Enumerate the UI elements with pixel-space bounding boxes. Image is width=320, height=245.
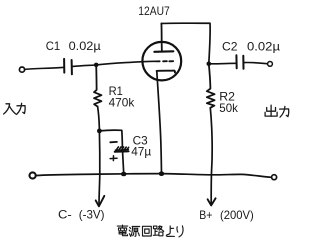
ground terminal (bottom left) bbox=[29, 172, 35, 178]
svg-text:50k: 50k bbox=[219, 101, 239, 115]
node R1/C3 junction bbox=[97, 129, 102, 134]
wire C1 to grid node bbox=[73, 65, 97, 66]
wire junction to C2 bbox=[209, 62, 236, 65]
wire C2 to output bbox=[244, 62, 268, 63]
C3 plus sign bbox=[110, 156, 117, 161]
input terminal (left) bbox=[19, 67, 24, 72]
svg-text:B+: B+ bbox=[199, 208, 212, 222]
wire ground rail bbox=[36, 174, 271, 178]
svg-text:(-3V): (-3V) bbox=[79, 208, 105, 222]
capacitor C1 bbox=[63, 59, 65, 73]
svg-text:C2: C2 bbox=[222, 39, 238, 53]
svg-text:0.02µ: 0.02µ bbox=[247, 39, 280, 53]
wire plate to output node bbox=[161, 23, 210, 64]
label input (nyuuryoku kanji) bbox=[4, 103, 26, 114]
kanji DEN bbox=[117, 225, 127, 236]
output terminal bbox=[268, 62, 273, 67]
node plate/C2/R2 junction bbox=[207, 62, 212, 67]
wire plate lead bbox=[160, 24, 163, 52]
ground terminal (bottom right) bbox=[272, 175, 277, 180]
tube V1 12AU7 envelope bbox=[142, 42, 181, 81]
svg-text:470k: 470k bbox=[109, 96, 136, 110]
tube V1 plate (anode) bbox=[154, 50, 173, 53]
label output (shutsuryoku kanji) bbox=[265, 105, 289, 117]
kanji GEN bbox=[129, 227, 140, 237]
node cathode/ground rail junction bbox=[159, 171, 165, 176]
kanji KAI bbox=[143, 226, 152, 236]
resistor R1 bbox=[94, 65, 102, 107]
capacitor C2 bbox=[235, 55, 237, 68]
wire R1 node to C- supply bbox=[98, 131, 101, 206]
svg-text:(200V): (200V) bbox=[220, 208, 254, 222]
wire grid lead bbox=[96, 61, 155, 65]
arrow to B+ supply bbox=[208, 198, 216, 205]
kanji RO bbox=[153, 226, 163, 236]
svg-text:C1: C1 bbox=[46, 39, 61, 53]
arrow to C- supply bbox=[96, 196, 105, 206]
capacitor C3 hatched plate bbox=[115, 147, 128, 151]
svg-text:C-: C- bbox=[58, 208, 72, 222]
wire R2 to B+ supply bbox=[210, 108, 212, 205]
node C3/ground rail junction bbox=[121, 172, 127, 177]
svg-text:0.02µ: 0.02µ bbox=[69, 39, 101, 53]
wire cathode to ground rail bbox=[157, 71, 162, 173]
wire node to C3 bbox=[99, 130, 122, 147]
wire input to C1 bbox=[25, 67, 63, 69]
label from power supply (dengen kairo yori kanji) bbox=[117, 225, 183, 237]
C3 minus sign bbox=[110, 141, 117, 143]
wire C3 to rail bbox=[122, 147, 123, 174]
node C1/R1/grid junction bbox=[94, 63, 99, 68]
tube V1 grid (dashed) bbox=[156, 60, 173, 62]
kana YO bbox=[166, 226, 174, 237]
wire R1 to node bbox=[98, 107, 100, 131]
resistor R2 bbox=[207, 64, 215, 108]
kana RI bbox=[177, 226, 183, 237]
capacitor C3 plain plate bbox=[115, 150, 129, 152]
svg-text:12AU7: 12AU7 bbox=[138, 4, 170, 18]
svg-text:47µ: 47µ bbox=[131, 145, 151, 159]
tube V1 cathode bbox=[157, 71, 175, 73]
